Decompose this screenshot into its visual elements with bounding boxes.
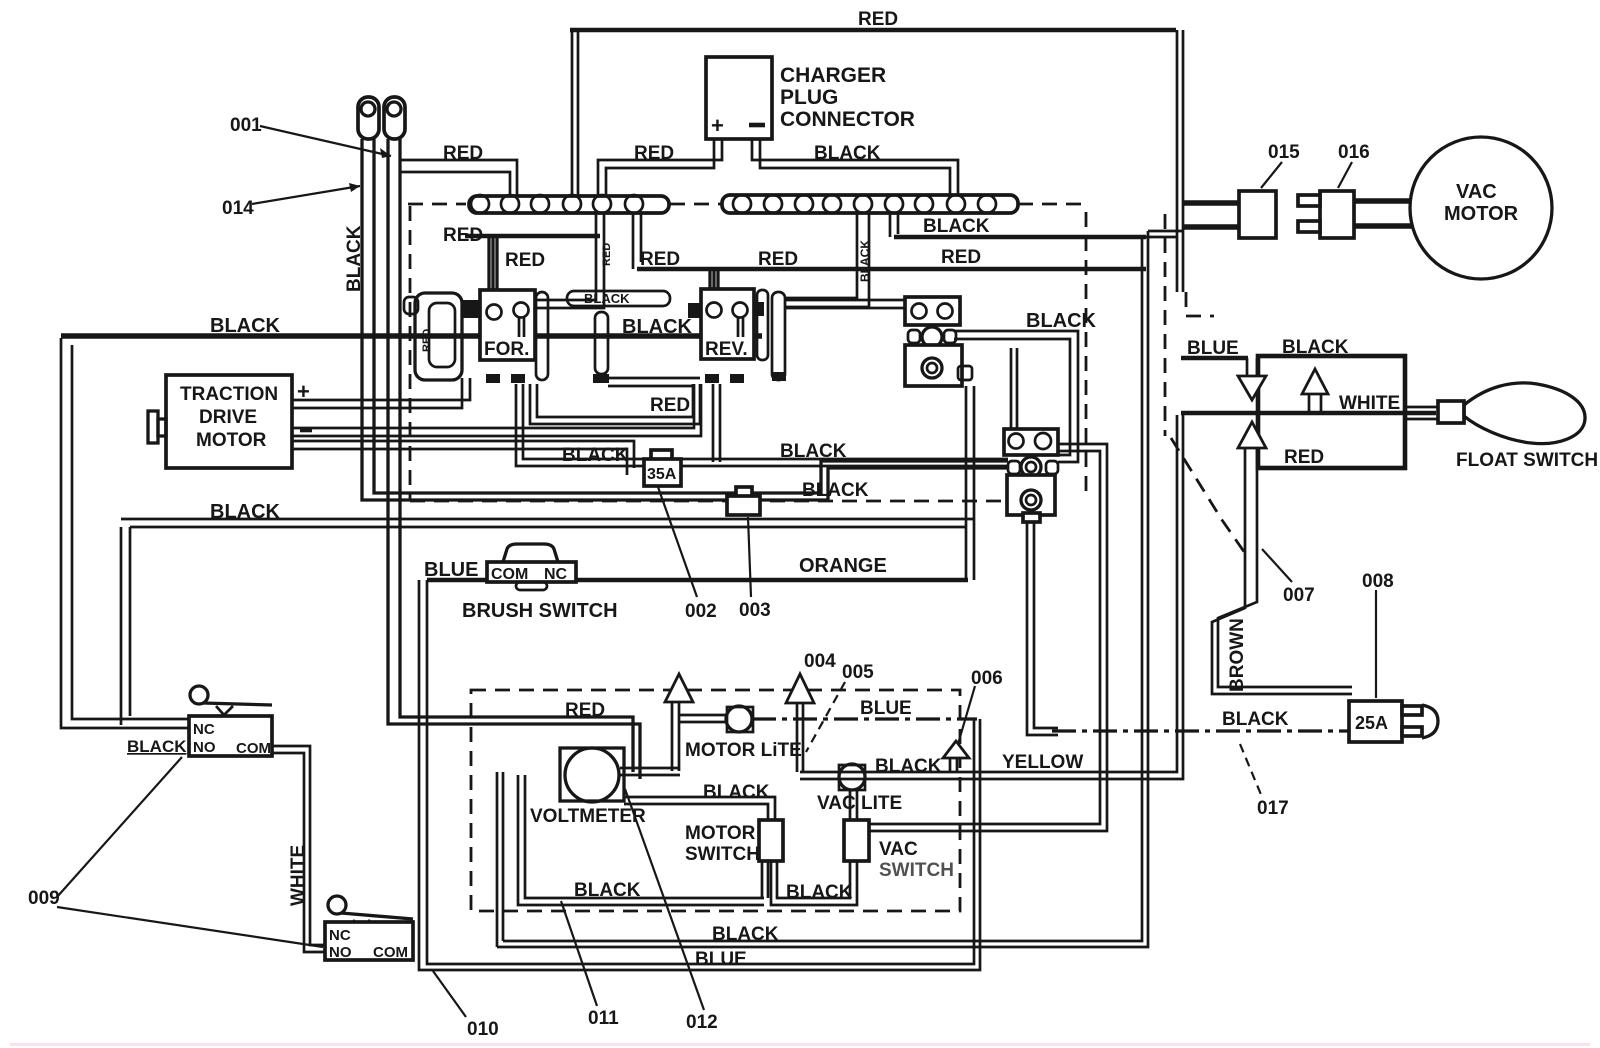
svg-text:RED: RED: [650, 395, 690, 416]
FOR contactor left pillar: [415, 293, 462, 380]
wire arrow 004 shaft: [797, 703, 803, 772]
svg-text:NC: NC: [329, 927, 351, 944]
wire battery cable red down to control panel: [388, 139, 640, 779]
svg-text:BLACK: BLACK: [1026, 310, 1097, 332]
016 connector: [1320, 191, 1354, 238]
FOR right pillar capsule: [536, 292, 548, 380]
svg-text:BROWN: BROWN: [1227, 618, 1248, 692]
svg-text:007: 007: [1283, 585, 1315, 606]
svg-text:FOR.: FOR.: [484, 339, 529, 360]
svg-text:BLACK: BLACK: [574, 880, 641, 901]
svg-text:BLUE: BLUE: [860, 698, 912, 719]
svg-text:015: 015: [1268, 142, 1300, 163]
wire 016 to VAC motor: [1354, 201, 1412, 226]
wire inner left vertical from lower black bus: [121, 527, 130, 725]
wire charger minus to strip: [752, 139, 958, 195]
wire x600 capsule leg down to REV link: [595, 312, 608, 374]
25A fuse: [1349, 701, 1402, 742]
svg-text:BLACK: BLACK: [814, 143, 881, 164]
svg-text:BLACK: BLACK: [703, 782, 770, 803]
svg-text:VAC: VAC: [1456, 181, 1497, 203]
voltmeter: [560, 748, 624, 801]
svg-text:BLUE: BLUE: [1187, 338, 1239, 359]
wire RED mid horizontal: [637, 267, 1146, 272]
svg-text:RED: RED: [640, 249, 680, 270]
connector block mid right: [1004, 429, 1058, 455]
charger plug connector box: [706, 57, 772, 139]
float arrow blue down: [1238, 376, 1266, 400]
svg-text:RED: RED: [601, 243, 613, 266]
svg-text:COM: COM: [491, 566, 528, 583]
wire connector block bottom down to 25A run: [1027, 521, 1058, 735]
arrow up 1: [665, 674, 693, 702]
FOR contactor left stub: [461, 300, 480, 318]
relay block upper right: [905, 297, 960, 325]
wire 35A fuse out to connector block: [681, 459, 1008, 466]
wire charger plus to strip: [598, 139, 722, 196]
svg-text:MOTOR: MOTOR: [685, 823, 756, 844]
svg-text:005: 005: [842, 662, 874, 683]
FOR contactor box: [480, 290, 535, 360]
scan artifact pink line: [10, 1043, 1590, 1046]
wire 015 plug leads: [1184, 203, 1239, 227]
wire traction motor minus to REV: [292, 384, 701, 436]
svg-text:011: 011: [588, 1008, 619, 1029]
wire traction motor third to 35A fuse: [292, 441, 634, 475]
svg-text:BLACK: BLACK: [210, 501, 281, 523]
wire long right vertical + bottom black run: [497, 231, 1148, 947]
svg-text:WHITE: WHITE: [1339, 393, 1400, 414]
svg-text:NC: NC: [193, 721, 215, 738]
BLACK capsule label between contactors: [567, 291, 670, 306]
terminal strip left: [469, 196, 669, 213]
wire motor lite left: [679, 715, 727, 722]
wire FOR leg down to 35A fuse: [516, 384, 644, 466]
pointer 009 lines: [57, 757, 323, 947]
pointer 012: [625, 789, 704, 1010]
pointer 015: [1261, 162, 1282, 188]
svg-text:MOTOR: MOTOR: [196, 430, 267, 451]
svg-text:MOTOR LiTE: MOTOR LiTE: [685, 740, 802, 761]
svg-text:BLACK: BLACK: [858, 240, 872, 282]
svg-text:004: 004: [804, 651, 836, 672]
wire left tall loop to micro switch: [61, 338, 189, 728]
svg-text:COM: COM: [236, 740, 271, 757]
wire BLACK from terminal strip to right vertical: [894, 235, 1146, 240]
pointer 014: [252, 186, 360, 204]
svg-text:006: 006: [971, 668, 1003, 689]
wire relay hex to connector block right: [954, 331, 1078, 462]
svg-text:RED: RED: [421, 329, 433, 352]
svg-text:BLACK: BLACK: [923, 216, 990, 237]
FOR contactor left stub capsule: [404, 297, 418, 314]
wire FOR riser: [489, 238, 497, 305]
battery terminal 001 left: [358, 97, 379, 139]
wire BLACK main bus left: [61, 333, 762, 338]
svg-text:BRUSH SWITCH: BRUSH SWITCH: [462, 600, 618, 622]
wire top-left vertical to strip: [572, 31, 578, 196]
float switch box: [1258, 356, 1405, 468]
REV right pillar capsules: [757, 290, 768, 360]
REV contactor feet: [705, 374, 719, 383]
float arrow black up: [1302, 369, 1328, 394]
svg-text:BLACK: BLACK: [1222, 709, 1289, 730]
wire yellow run with riser to float white: [800, 415, 1183, 779]
motor lite: [727, 707, 753, 732]
wire vertical orange-to-block riser: [966, 386, 974, 580]
REV contactor left stub: [688, 303, 701, 318]
float switch bulb: [1464, 383, 1585, 444]
svg-text:MOTOR: MOTOR: [1444, 203, 1519, 225]
wire BLACK dash-dot to 25A fuse: [1052, 729, 1349, 732]
VAC motor: [1410, 137, 1552, 279]
wire brown from float red arrow to 25A: [1212, 448, 1352, 694]
wire BLUE float switch: [1181, 356, 1248, 361]
vac switch: [844, 820, 869, 861]
wire voltmeter black top to motor switch: [624, 797, 775, 820]
svg-text:RED: RED: [565, 700, 605, 721]
terminal strip right: [722, 195, 1018, 213]
svg-text:002: 002: [685, 601, 717, 622]
svg-text:BLUE: BLUE: [424, 559, 478, 581]
svg-text:BLACK: BLACK: [584, 291, 630, 306]
wire FOR to REV lower link: [530, 384, 700, 424]
REV contactor box: [701, 289, 754, 359]
wire WHITE float switch: [1181, 411, 1436, 416]
svg-text:016: 016: [1338, 142, 1370, 163]
svg-text:CHARGER: CHARGER: [780, 64, 886, 87]
svg-text:25A: 25A: [1355, 713, 1388, 733]
wire arrow 1 shaft: [672, 703, 679, 771]
pointer 002: [658, 487, 697, 597]
dashed lines near float switch 007: [1164, 214, 1167, 436]
svg-text:PLUG: PLUG: [780, 86, 838, 109]
arrow up 006: [943, 741, 969, 758]
svg-text:BLACK: BLACK: [786, 882, 853, 903]
svg-text:BLACK: BLACK: [712, 924, 779, 945]
svg-text:NO: NO: [193, 739, 216, 756]
svg-text:VAC LITE: VAC LITE: [817, 793, 902, 814]
WIRES-TUBE: [61, 30, 1352, 970]
svg-text:BLACK: BLACK: [875, 756, 942, 777]
micro switch upper 009: [190, 686, 208, 704]
wire micro switch COM down to lower micro switch: [272, 746, 325, 952]
brush switch: [503, 544, 558, 562]
micro switch lower 010: [328, 896, 346, 914]
wire strip down x600 to FOR: [526, 213, 604, 308]
dashed enclosure main: [408, 204, 1086, 501]
pointer 016: [1338, 162, 1352, 188]
wire BLUE dash-dot motor lite: [752, 717, 977, 720]
battery terminal 001 right: [384, 97, 405, 139]
wire lower black bus: [121, 519, 974, 527]
wire red tee from cable to strip: [400, 160, 517, 196]
svg-text:35A: 35A: [647, 466, 677, 483]
wire battery cable 001 black, down and across to connector block: [362, 139, 1008, 500]
svg-text:SWITCH: SWITCH: [879, 860, 954, 881]
svg-text:+: +: [297, 379, 310, 404]
svg-text:WHITE: WHITE: [288, 845, 309, 906]
svg-text:BLACK: BLACK: [562, 445, 629, 466]
wire float black up-arrow shaft: [1309, 394, 1321, 411]
traction drive motor box: [166, 375, 292, 468]
svg-text:RED: RED: [505, 250, 545, 271]
svg-text:VOLTMETER: VOLTMETER: [530, 806, 646, 827]
motor switch: [759, 820, 783, 861]
svg-text:017: 017: [1257, 798, 1289, 819]
svg-text:SWITCH: SWITCH: [685, 844, 760, 865]
wire REV to relay block: [786, 300, 905, 308]
svg-text:RED: RED: [443, 143, 483, 164]
wire riser REV leg to fuse line: [713, 384, 720, 462]
35A fuse: [651, 450, 672, 461]
pointer 008: [1375, 590, 1377, 698]
svg-text:BLACK: BLACK: [802, 480, 869, 501]
wire RED short above FOR contactor: [465, 234, 600, 239]
pointer 001: [260, 126, 391, 156]
pointer 006: [958, 686, 975, 744]
pointer 005 dashed: [806, 682, 845, 752]
svg-text:RED: RED: [941, 247, 981, 268]
svg-text:RED: RED: [634, 143, 674, 164]
pointer 010: [433, 971, 466, 1017]
arrow up 004: [786, 674, 814, 703]
svg-text:003: 003: [739, 600, 771, 621]
wire riser left of bottom black run to voltmeter loop: [497, 772, 503, 947]
svg-text:TRACTION: TRACTION: [180, 384, 278, 405]
svg-text:+: +: [711, 113, 724, 138]
float switch stem: [1405, 407, 1438, 419]
wire connector block top pair: [1011, 348, 1017, 429]
wire vac switch black run up right vertical: [869, 444, 1107, 831]
svg-text:YELLOW: YELLOW: [1002, 752, 1083, 773]
WIRES-SINGLE: [61, 30, 1436, 731]
connector 003: [736, 487, 752, 498]
pointer 007: [1262, 549, 1292, 582]
pointer 017 dashed: [1240, 744, 1262, 797]
wire BLUE/ORANGE brush switch run: [427, 578, 968, 583]
wire voltmeter right to motor lite arrow: [620, 768, 680, 775]
wire top-right vertical down to 015: [1177, 30, 1183, 292]
svg-text:BLACK: BLACK: [344, 225, 365, 292]
pointer 011: [561, 901, 597, 1006]
015 connector: [1239, 191, 1276, 238]
FOR contactor feet: [486, 374, 500, 383]
svg-text:014: 014: [222, 198, 254, 219]
svg-text:BLACK: BLACK: [622, 316, 693, 338]
wire blue bottom run with riser to motor lite: [419, 580, 980, 970]
wire voltmeter left loop to switches: [518, 775, 764, 905]
svg-text:DRIVE: DRIVE: [199, 407, 257, 428]
svg-text:RED: RED: [443, 225, 483, 246]
svg-text:BLACK: BLACK: [210, 315, 281, 337]
vac lite: [839, 765, 865, 790]
svg-text:012: 012: [686, 1012, 718, 1033]
svg-text:ORANGE: ORANGE: [799, 555, 887, 577]
wire float blue down-arrow shaft: [1247, 358, 1257, 376]
svg-text:BLACK: BLACK: [1282, 337, 1349, 358]
wire motor switch left leg: [762, 861, 768, 898]
svg-text:001: 001: [230, 115, 262, 136]
svg-text:RED: RED: [858, 9, 898, 30]
svg-text:BLACK: BLACK: [127, 737, 187, 756]
control panel dashed box: [471, 690, 960, 911]
wire traction motor plus: [292, 378, 470, 408]
svg-text:FLOAT SWITCH: FLOAT SWITCH: [1456, 450, 1598, 471]
svg-text:008: 008: [1362, 571, 1394, 592]
wire arrow 006 shaft: [950, 757, 957, 772]
svg-text:COM: COM: [373, 944, 408, 961]
pointer 003: [748, 517, 751, 597]
svg-text:BLACK: BLACK: [780, 441, 847, 462]
svg-text:REV.: REV.: [705, 339, 748, 360]
svg-text:009: 009: [28, 888, 60, 909]
svg-text:NC: NC: [544, 566, 568, 583]
wire RED top bus: [570, 28, 1176, 33]
float arrow red up: [1238, 422, 1266, 448]
wire motor switch right leg to vac switch leg: [771, 861, 857, 905]
svg-text:CONNECTOR: CONNECTOR: [780, 108, 915, 131]
svg-text:VAC: VAC: [879, 839, 918, 860]
REV right stub: [754, 302, 764, 316]
svg-text:NO: NO: [329, 944, 352, 961]
svg-text:RED: RED: [758, 249, 798, 270]
wire REV riser: [710, 269, 718, 303]
svg-text:RED: RED: [1284, 447, 1324, 468]
svg-text:010: 010: [467, 1019, 499, 1040]
wire black from strip down left to REV pillar: [786, 213, 869, 307]
wire vac lite to vac switch riser: [850, 790, 857, 820]
svg-text:BLUE: BLUE: [695, 949, 747, 970]
